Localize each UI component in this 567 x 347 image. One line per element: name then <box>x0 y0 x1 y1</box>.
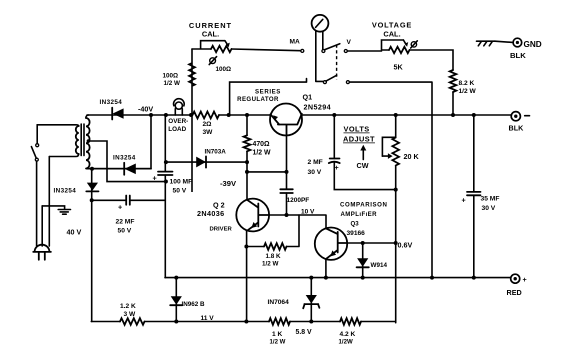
svg-text:1/2 W: 1/2 W <box>253 150 271 157</box>
switch S1 lower contact <box>35 158 38 161</box>
transistor Q1 2N5294 (series regulator) <box>270 104 302 136</box>
switch meter pole2 left contact <box>323 81 326 84</box>
svg-text:1/2 W: 1/2 W <box>164 80 181 87</box>
ground chassis (top right) <box>477 41 496 46</box>
svg-text:100Ω: 100Ω <box>163 73 179 80</box>
svg-text:1.8 K: 1.8 K <box>266 253 282 260</box>
svg-text:GND: GND <box>524 40 542 49</box>
wire 22MF horizontal <box>92 199 166 201</box>
svg-text:+: + <box>523 275 527 284</box>
diode IN3254 D1 (top) <box>111 108 113 120</box>
svg-text:W914: W914 <box>371 262 388 269</box>
contact MA <box>301 49 304 52</box>
switch S1 upper contact <box>36 144 39 147</box>
wire pot to MA contact <box>232 49 301 51</box>
svg-text:39166: 39166 <box>347 230 366 237</box>
terminal GND BLK <box>513 38 522 47</box>
svg-text:IN3254: IN3254 <box>113 154 136 161</box>
capacitor 22MF 50V <box>126 196 130 205</box>
node secondary center tap <box>87 139 91 143</box>
svg-text:-40V: -40V <box>138 105 153 114</box>
terminal RED <box>511 274 520 283</box>
svg-text:+: + <box>118 203 122 212</box>
svg-text:IN962 B: IN962 B <box>182 301 206 308</box>
resistor 4.2K 1/2W <box>340 318 361 325</box>
resistor 100ohm 1/2W <box>189 49 195 192</box>
svg-text:IN3254: IN3254 <box>100 99 123 106</box>
svg-text:50 V: 50 V <box>173 188 187 195</box>
svg-text:3W: 3W <box>203 129 214 136</box>
wire to chassis ground <box>42 206 64 209</box>
wire primary bottom lead <box>49 154 78 157</box>
wire V contact to pot <box>347 50 381 52</box>
svg-text:11 V: 11 V <box>201 315 215 322</box>
svg-text:2Ω: 2Ω <box>203 121 213 128</box>
transformer T1 secondary winding <box>86 118 90 169</box>
svg-text:BLK: BLK <box>510 51 526 60</box>
wire switch to primary <box>36 125 38 144</box>
diode W914 <box>362 243 364 278</box>
wire switch to plug <box>36 161 38 246</box>
diode IN962B 11V <box>175 278 177 322</box>
switch meter pole1 left contact <box>322 50 325 53</box>
svg-text:RED: RED <box>507 288 522 297</box>
svg-text:2N4036: 2N4036 <box>197 209 225 218</box>
svg-text:CAL.: CAL. <box>202 30 219 39</box>
svg-text:30 V: 30 V <box>482 205 496 212</box>
wire 2MF branch <box>334 115 395 190</box>
switch gang dashed link <box>336 45 338 80</box>
wire 470 node to Q1 base node <box>247 171 287 173</box>
diode IN7064 <box>310 278 312 322</box>
wire Q3 emitter <box>325 259 327 277</box>
potentiometer VOLTAGE CAL 5K <box>389 47 410 53</box>
terminal BLK <box>511 112 520 121</box>
transformer T1 primary winding <box>76 126 79 154</box>
wire voltmeter to output rail <box>349 82 432 278</box>
meter M1 <box>312 15 329 32</box>
diode IN3254 D2 (middle) <box>123 163 125 175</box>
svg-text:1/2 W: 1/2 W <box>270 338 286 345</box>
resistor 470ohm 1/2W <box>246 115 248 135</box>
transformer T1 core <box>81 124 84 156</box>
wire plug right conductor <box>48 157 50 247</box>
capacitor 2MF 30V <box>329 159 340 164</box>
junction dots <box>149 113 153 117</box>
svg-text:50 V: 50 V <box>118 228 132 235</box>
switch S1 arm <box>31 147 36 159</box>
wire Q2 base <box>269 215 326 229</box>
svg-text:IN7064: IN7064 <box>268 299 290 306</box>
wire D2 cathode to rail vertical <box>87 115 151 169</box>
svg-text:SERIES: SERIES <box>255 89 281 96</box>
switch meter pole2 right contact <box>346 81 349 84</box>
svg-text:VOLTS: VOLTS <box>344 125 370 134</box>
svg-text:IN703A: IN703A <box>205 149 227 156</box>
svg-text:BLK: BLK <box>509 124 525 133</box>
svg-text:5K: 5K <box>394 63 404 72</box>
overload breaker <box>174 99 185 107</box>
svg-text:8.2 K: 8.2 K <box>459 80 475 87</box>
capacitor 35MF 30V <box>473 115 475 278</box>
svg-text:1/2 W: 1/2 W <box>262 260 279 267</box>
wire meter right lead <box>322 32 324 50</box>
svg-text:CW: CW <box>357 161 369 170</box>
wire shunt tap to meter switch <box>230 79 307 115</box>
svg-text:1/2W: 1/2W <box>339 338 353 345</box>
svg-text:-39V: -39V <box>220 179 237 188</box>
svg-text:VOLTAGE: VOLTAGE <box>372 21 412 30</box>
svg-text:1.2 K: 1.2 K <box>120 303 136 310</box>
wire -40V input rail (top horizontal) <box>87 114 511 116</box>
resistor 8.2K 1/2W <box>450 70 457 92</box>
wire Q1 base vertical <box>286 135 288 215</box>
svg-text:30 V: 30 V <box>308 169 322 176</box>
potentiometer CURRENT CAL 100ohm <box>211 46 232 52</box>
svg-text:Q3: Q3 <box>351 220 360 227</box>
svg-text:LOAD: LOAD <box>168 126 186 133</box>
wire primary top lead <box>37 125 78 126</box>
svg-text:2N5294: 2N5294 <box>304 103 332 112</box>
resistor 1.8K 1/2W <box>246 246 264 248</box>
wire D3 branch vertical <box>91 169 93 322</box>
svg-text:470Ω: 470Ω <box>253 141 270 148</box>
svg-text:4.2 K: 4.2 K <box>340 331 356 338</box>
wire plug ground conductor <box>41 206 43 246</box>
wire meter left lead <box>316 31 324 81</box>
arrow CW <box>362 150 364 160</box>
svg-text:IN3254: IN3254 <box>54 188 77 195</box>
svg-text:+: + <box>335 163 339 172</box>
ground chassis (near plug) <box>58 210 70 215</box>
svg-text:35 MF: 35 MF <box>481 195 500 202</box>
switch meter pole2 arm <box>326 75 337 81</box>
svg-text:1 K: 1 K <box>272 331 282 338</box>
transistor Q3 39166 (comparison amplifier) <box>315 228 347 260</box>
resistor 1K 1/2W <box>269 318 290 325</box>
svg-text:3 W: 3 W <box>124 311 136 318</box>
svg-text:CAL.: CAL. <box>383 30 400 39</box>
wire 100MF node vertical <box>164 115 166 278</box>
wire IN703A run <box>165 161 247 163</box>
diode IN3254 D3 (vertical) <box>87 183 98 191</box>
svg-text:1200PF: 1200PF <box>287 197 310 204</box>
svg-text:40 V: 40 V <box>67 228 82 237</box>
wire secondary center tap run <box>88 141 165 182</box>
svg-text:+: + <box>153 174 157 183</box>
svg-text:V: V <box>347 39 352 46</box>
wire Q3 base <box>347 242 395 244</box>
diode IN703A <box>196 157 206 168</box>
switch meter pole1 right contact (V) <box>344 50 347 53</box>
svg-text:20 K: 20 K <box>404 152 420 161</box>
AC plug P1 <box>35 245 50 252</box>
potentiometer 20K <box>395 115 397 138</box>
transistor Q2 2N4036 (driver) <box>236 199 269 232</box>
svg-text:AMPLıFıER: AMPLıFıER <box>341 211 378 218</box>
svg-text:1/2 W: 1/2 W <box>459 88 477 95</box>
capacitor 100MF 50V <box>158 172 173 175</box>
svg-text:0.6V: 0.6V <box>398 240 413 249</box>
wire D2 anode run <box>87 168 151 170</box>
capacitor 1200PF 10V <box>280 189 293 193</box>
svg-text:Q1: Q1 <box>303 93 313 102</box>
svg-text:+: + <box>462 196 466 205</box>
svg-text:2 MF: 2 MF <box>308 159 323 166</box>
svg-text:100Ω: 100Ω <box>216 66 232 73</box>
resistor 2ohm 3W <box>193 112 220 119</box>
wire output rail to RED terminal (lower horizontal) <box>165 277 511 279</box>
switch meter pole1 arm <box>325 44 340 50</box>
svg-text:REGULATOR: REGULATOR <box>237 96 279 103</box>
wire transformer secondary top to rail <box>86 115 89 118</box>
wire Q2 emitter down <box>246 231 248 322</box>
svg-text:MA: MA <box>290 39 300 46</box>
svg-text:100 MF: 100 MF <box>170 179 193 186</box>
adjust symbol (voltage cal) <box>411 42 416 47</box>
svg-text:OVER-: OVER- <box>168 118 188 125</box>
adjust symbol (current cal) <box>210 58 216 64</box>
wire pot to 8.2K corner <box>410 50 454 70</box>
wire ground to GND terminal <box>495 41 513 42</box>
svg-text:DRIVER: DRIVER <box>210 227 233 233</box>
svg-text:ADJUST: ADJUST <box>343 135 375 144</box>
svg-text:COMPARISON: COMPARISON <box>340 202 388 209</box>
wire bottom divider rail <box>91 321 395 323</box>
svg-text:5.8 V: 5.8 V <box>296 329 312 336</box>
resistor 1.2K 3W <box>120 318 145 325</box>
svg-text:22 MF: 22 MF <box>116 219 135 226</box>
